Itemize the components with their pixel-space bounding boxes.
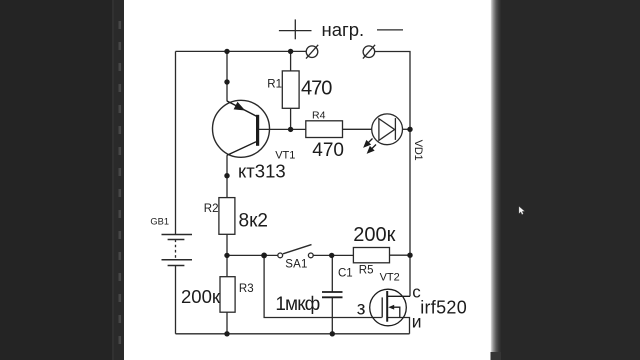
wire emitter lead — [226, 51, 228, 101]
node bottom rail R3 — [224, 331, 229, 336]
terminal X1 — [306, 45, 318, 59]
node emitter lead dot — [224, 79, 229, 84]
wire R2 bottom lead — [226, 234, 228, 255]
node LED right rail — [407, 127, 412, 132]
svg-text:R4: R4 — [312, 110, 326, 122]
wire R1 bottom lead — [290, 108, 292, 129]
resistor R5 — [353, 248, 389, 263]
wire switch to node A — [313, 254, 353, 256]
wire collector lead — [226, 155, 228, 197]
LED emission arrows — [364, 139, 376, 153]
svg-text:GB1: GB1 — [150, 216, 169, 226]
wire right rail lower to drain — [409, 255, 411, 296]
battery GB1 — [162, 235, 193, 266]
transistor VT1 — [213, 100, 270, 157]
wire base to R1/R4 node — [259, 128, 306, 130]
svg-text:irf520: irf520 — [420, 297, 467, 317]
wire terminal2 to right rail corner — [375, 52, 411, 130]
svg-text:кт313: кт313 — [238, 161, 286, 182]
wire left rail lower — [175, 266, 177, 334]
switch SA1 — [278, 245, 313, 258]
node R5 right rail — [407, 253, 412, 258]
resistor R2 — [219, 198, 235, 235]
svg-text:200к: 200к — [353, 224, 395, 246]
svg-text:з: з — [357, 299, 366, 320]
wire R3 bottom lead — [226, 312, 228, 334]
capacitor C1 — [322, 292, 343, 297]
wire node B horizontal to switch — [227, 254, 278, 256]
LED VD1 — [372, 114, 403, 145]
wire C1 top lead — [331, 255, 333, 291]
svg-text:470: 470 — [312, 140, 344, 161]
wire node A to R5 — [390, 254, 411, 256]
svg-text:C1: C1 — [338, 267, 353, 279]
node top-R1 junction — [288, 49, 293, 54]
right dark panel — [500, 0, 640, 360]
node base junction — [288, 127, 293, 132]
wire R1 top lead — [290, 51, 292, 71]
svg-text:470: 470 — [301, 78, 332, 100]
mouse cursor — [519, 207, 525, 215]
resistor R3 — [220, 277, 235, 313]
svg-text:8к2: 8к2 — [239, 210, 268, 231]
node B R2/R3/switch — [224, 253, 229, 258]
svg-text:1мкф: 1мкф — [275, 294, 319, 315]
svg-text:200к: 200к — [181, 286, 221, 307]
svg-text:R5: R5 — [359, 265, 374, 277]
wire LED to right rail — [402, 128, 410, 130]
wire source lead — [387, 318, 410, 334]
left dark toolbar panel — [0, 0, 112, 360]
svg-text:VD1: VD1 — [412, 140, 424, 161]
canvas right edge gradient — [491, 0, 502, 360]
plus polarity symbol — [279, 19, 312, 39]
scrollbar bottom button — [491, 352, 502, 360]
wire R4 to LED — [343, 128, 372, 130]
wire right rail middle — [409, 129, 411, 255]
svg-text:R1: R1 — [267, 79, 282, 91]
svg-text:R2: R2 — [204, 203, 219, 215]
resistor R4 — [306, 121, 343, 138]
wire bottom rail — [176, 333, 410, 335]
wire R3 top lead — [226, 255, 228, 276]
wire gate branch — [264, 255, 382, 317]
wire left rail upper — [175, 51, 177, 234]
node top-emitter junction — [224, 49, 229, 54]
svg-text:нагр.: нагр. — [322, 19, 365, 40]
terminal X2 — [363, 45, 375, 59]
node collector dot — [224, 173, 229, 178]
node bottom rail C1 — [330, 331, 335, 336]
node gate branch — [261, 253, 267, 259]
node A switch/C1/R5 — [329, 253, 334, 258]
wire top rail — [176, 50, 307, 52]
MOSFET VT2 irf520 — [370, 289, 410, 326]
svg-text:VT2: VT2 — [380, 272, 400, 284]
resistor R1 — [282, 71, 299, 108]
wire C1 bottom lead — [331, 298, 333, 334]
minus polarity symbol — [377, 29, 403, 31]
svg-text:R3: R3 — [239, 283, 254, 295]
svg-text:SA1: SA1 — [285, 258, 307, 270]
